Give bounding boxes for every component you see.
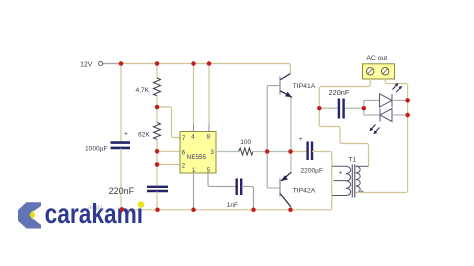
LED D2 (lower) (380, 109, 408, 122)
primary winding (346, 166, 351, 195)
wire: J1 left pin to node A (319, 79, 370, 108)
secondary top lead (356, 165, 369, 167)
svg-text:12V: 12V (80, 62, 93, 69)
wire: node A staircase to secondary top (319, 108, 368, 166)
svg-text:NE555: NE555 (187, 154, 206, 161)
capacitor C5 220nF (339, 99, 344, 119)
resistor R2 62K (154, 123, 161, 140)
primary leads (332, 166, 346, 195)
ground rail wire (121, 209, 332, 211)
wire: emitter net (267, 151, 290, 153)
logo yellow dot (i tittle) (138, 201, 145, 208)
wire: LED bracket (364, 100, 380, 115)
svg-text:AC out: AC out (366, 55, 387, 62)
wire: pin 1 to ground (193, 173, 195, 210)
LED D1 (upper) (380, 94, 408, 107)
svg-text:1nF: 1nF (227, 202, 238, 209)
LED D2 arrows (369, 125, 379, 135)
secondary winding (356, 166, 360, 192)
AC out connector J1 (363, 55, 395, 79)
wire: pin 5 to C3 (208, 173, 236, 187)
wire: pin 3 output (216, 151, 239, 153)
wire: C4 to transformer primary (312, 152, 332, 210)
svg-text:1000µF: 1000µF (85, 145, 108, 152)
resistor R1 4,7K (154, 78, 161, 96)
wire: emitters to C4 (291, 151, 308, 153)
svg-text:100: 100 (240, 139, 251, 146)
op-amp U1 NE555 (180, 132, 216, 174)
wire: C1 to ground rail (120, 149, 122, 210)
svg-text:4,7K: 4,7K (136, 87, 150, 94)
capacitor C2 220nF (147, 187, 168, 191)
svg-text:T1: T1 (348, 156, 356, 163)
wire: base net vertical (267, 86, 280, 188)
wire: 220nF node to cap (319, 107, 338, 109)
svg-text:+: + (124, 130, 128, 137)
svg-text:+: + (339, 170, 343, 177)
logo carakami icon (18, 202, 41, 228)
svg-text:TIP42A: TIP42A (293, 188, 316, 195)
svg-text:+: + (299, 136, 303, 143)
svg-text:220nF: 220nF (329, 88, 350, 97)
wire: node to pin 7 (157, 107, 180, 138)
resistor R3 100 (239, 148, 253, 155)
core (351, 165, 353, 198)
wire: pin 6 (157, 150, 180, 152)
svg-text:2200µF: 2200µF (301, 167, 324, 174)
transistor Q2 TIP42A (280, 172, 316, 210)
logo yellow diamond (29, 210, 35, 219)
junction dot on ground rail over logo (120, 207, 125, 212)
svg-text:TIP41A: TIP41A (293, 83, 316, 90)
capacitor C1 1000uF (111, 143, 131, 148)
wire: rail to C1 (120, 64, 122, 143)
wire: J1 right pin to right rail (356, 79, 408, 193)
capacitor C4 2200uF (308, 142, 312, 161)
node 12V terminal (99, 62, 103, 66)
transistor Q1 TIP41A (280, 74, 316, 98)
wire: pin 4 (193, 64, 195, 125)
LED D1 arrows (393, 83, 403, 92)
wire: 12V terminal stub (103, 63, 121, 65)
wire: R2 to pin6/pin2 nodes (156, 139, 158, 186)
svg-text:carakami: carakami (45, 198, 144, 229)
wire: pin 8 (208, 64, 210, 125)
svg-text:220nF: 220nF (109, 186, 135, 196)
wire: C2 to ground rail (156, 192, 158, 210)
wire: pin 2 (157, 164, 180, 166)
capacitor C3 1nF (237, 179, 242, 196)
wire: rail to R1 (156, 64, 158, 79)
wire: R1 to node A (156, 96, 158, 123)
transformer T1 (332, 156, 369, 197)
wire: top +12V rail (103, 64, 290, 74)
wire: R3 to base node (253, 151, 267, 153)
svg-text:62K: 62K (138, 132, 150, 139)
wire: C3 to ground rail (242, 187, 254, 210)
